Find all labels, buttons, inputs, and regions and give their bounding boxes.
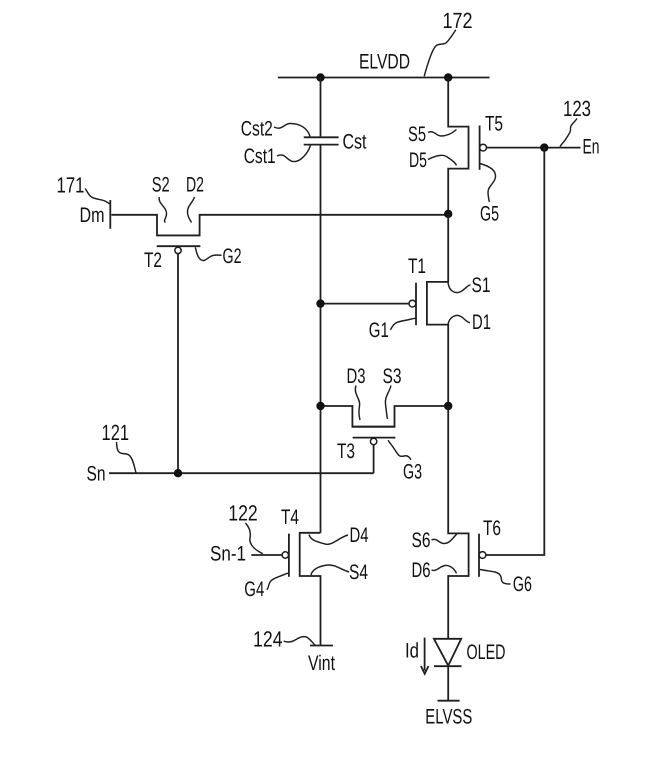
svg-text:T3: T3 [337,440,355,463]
svg-text:T5: T5 [485,113,503,136]
label G5 with leader [480,164,499,226]
svg-text:G1: G1 [369,319,389,342]
svg-text:D3: D3 [347,365,366,388]
transistor T2 gate bar [157,245,201,247]
svg-text:En: En [583,136,600,159]
wire: En gate line [486,147,580,149]
node: storage node to T3 left junction [316,402,324,410]
reference numeral 172 with leader [424,8,472,76]
svg-text:S5: S5 [408,123,426,146]
svg-text:T6: T6 [483,517,501,540]
label S3 with leader [383,365,402,419]
wire: T3 gate stem down to Sn [373,445,375,474]
svg-text:124: 124 [253,627,283,652]
transistor T3 gate bar [353,437,396,439]
svg-text:S2: S2 [152,173,170,196]
wire: T1 gate to storage node [321,303,410,305]
svg-text:171: 171 [57,172,85,197]
label S1 with leader [448,274,491,297]
transistor T2 channel bar (thick) [157,234,201,236]
svg-text:G2: G2 [223,245,242,268]
svg-text:Cst2: Cst2 [241,118,273,141]
wire: T2 gate stem down to Sn [177,254,179,474]
label S2 with leader [152,173,170,222]
node: ELVDD-T5 junction [444,73,452,81]
label D2 with leader [186,173,204,222]
label Cst1 with leader [244,145,311,168]
svg-text:D2: D2 [186,173,204,196]
transistor T3 channel bar (thick) [352,426,395,428]
Id current arrow [421,638,429,674]
svg-text:Dm: Dm [80,204,105,227]
node: storage node junction [316,299,324,307]
svg-text:121: 121 [102,420,130,445]
svg-text:D5: D5 [409,149,427,172]
reference numeral 171 with leader [57,172,110,204]
label G2 with leader [195,245,241,268]
svg-text:S6: S6 [412,529,431,552]
svg-text:Cst1: Cst1 [244,145,276,168]
svg-text:Cst: Cst [343,131,367,154]
svg-text:Id: Id [405,640,419,663]
terminal bar ELVSS [438,700,460,702]
label D3 with leader [347,365,366,420]
transistor T1 gate circle (PMOS) [409,300,416,307]
label D1 with leader [448,311,491,334]
svg-text:T1: T1 [408,255,426,278]
svg-text:ELVDD: ELVDD [359,51,410,74]
node: D2-T5 drain junction [444,210,452,218]
label G3 with leader [388,440,422,483]
reference numeral 124 with leader [253,627,315,652]
transistor T4 channel and leads [300,533,321,646]
svg-text:172: 172 [443,8,473,33]
transistor T2 gate circle (PMOS) [175,247,181,253]
ELVDD rail wire [278,77,490,79]
svg-text:T2: T2 [144,249,162,272]
wire: Sn scan line [109,472,374,474]
svg-text:122: 122 [228,501,258,526]
transistor T5 channel and leads [448,78,468,214]
transistor T5 gate bar [479,126,481,170]
reference numeral 123 with leader [560,96,591,147]
svg-text:Sn-1: Sn-1 [210,543,246,566]
OLED diode [434,639,462,666]
transistor T4 gate bar [288,534,290,577]
label Cst2 with leader [241,118,310,141]
svg-text:OLED: OLED [467,641,506,664]
reference numeral 121 with leader [102,420,136,473]
terminal bar Vint [310,645,333,647]
transistor T4 gate circle (PMOS) [282,552,288,558]
transistor T6 channel and leads [448,406,468,639]
transistor T3 channel and node wire [321,406,449,427]
transistor T2 channel and Dm-data wire [111,215,448,236]
capacitor Cst [304,137,339,144]
svg-text:G4: G4 [244,578,264,601]
svg-text:Sn: Sn [87,463,106,486]
svg-text:S3: S3 [383,365,402,388]
svg-text:S4: S4 [349,561,368,584]
transistor T1 channel and leads [427,214,448,406]
node: T1 drain to T3 right junction [444,402,452,410]
label G1 with leader [369,318,416,342]
label S6 with leader [412,529,458,552]
node: Sn-T2 gate junction [174,469,182,477]
label D5 with leader [409,149,457,172]
svg-text:T4: T4 [281,506,299,529]
label D6 with leader [412,559,457,582]
transistor T1 gate bar [415,283,417,326]
transistor T5 gate circle (PMOS) [480,144,487,151]
wire: OLED cathode to ELVSS [447,666,449,701]
label D4 with leader [309,524,369,547]
svg-text:123: 123 [563,96,591,121]
label G4 with leader [244,573,289,601]
reference numeral 122 with leader [228,501,263,554]
wire: Sn-1 to T4 gate [251,554,282,556]
wire: En vertical down to T6 gate [486,148,544,555]
svg-text:G6: G6 [513,573,532,596]
svg-text:D6: D6 [412,559,431,582]
transistor T6 gate circle (PMOS) [479,552,486,559]
label G6 with leader [480,570,532,597]
terminal tick Dm [109,200,111,229]
transistor T3 gate circle (PMOS) [370,438,376,444]
transistor T6 gate bar [478,534,480,577]
wire: storage-node vertical (Cst bottom to T4 drain) [320,145,322,533]
svg-text:D1: D1 [472,311,491,334]
svg-text:S1: S1 [472,274,491,297]
label S4 with leader [311,561,368,584]
svg-text:Vint: Vint [308,652,335,675]
svg-text:G5: G5 [480,203,499,226]
node: ELVDD-Cst junction [316,73,324,81]
svg-text:D4: D4 [350,524,369,547]
node: En junction [540,143,548,151]
label S5 with leader [408,123,457,146]
wire: Cst top lead from ELVDD [320,78,322,137]
svg-text:ELVSS: ELVSS [425,706,472,729]
svg-text:G3: G3 [403,460,422,483]
